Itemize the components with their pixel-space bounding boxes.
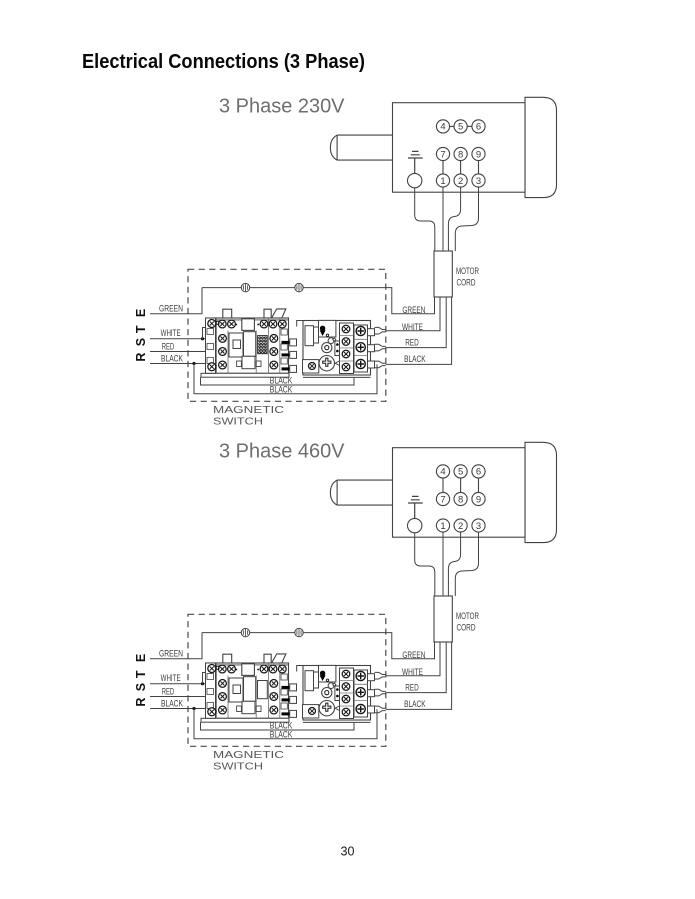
wire: T/WHITE supply to contactor [150,683,209,685]
svg-text:4: 4 [440,467,445,478]
svg-text:SWITCH: SWITCH [213,762,263,773]
magnetic contactor body [206,318,289,373]
relay left tower [305,671,314,691]
contactor top screw 4 [269,320,277,328]
wire BLACK: motor cord to overload relay [386,297,452,364]
relay output terminal column [354,670,368,717]
relay X screw 1 [342,325,350,333]
motor M (230V) : rear end cap [525,97,557,197]
svg-text:5: 5 [458,467,463,478]
contactor top tab 3 (slanted) [272,654,286,663]
motor terminal 9 [472,492,485,505]
motor terminal 5 [454,120,467,133]
magnetic switch enclosure (dashed) [188,269,386,401]
relay base plate [303,376,371,378]
relay output tab 1 [368,674,375,681]
overload relay body [303,321,371,376]
relay indicator ring [328,338,334,344]
relay output tab 2 [368,345,375,352]
junction on black wire [192,362,195,365]
svg-text:WHITE: WHITE [161,673,181,684]
contactor left pole screw 2 [219,693,227,701]
pilot lamp symbol 1 [241,628,249,636]
contactor line-side terminal strip [206,318,216,373]
relay output screw 2 [356,688,365,697]
svg-text:2: 2 [458,521,463,532]
jumper link terminals 6-9 [478,478,480,492]
jumper link terminals 8-2 [460,161,462,174]
motor terminal 6 [472,120,485,133]
svg-text:6: 6 [476,122,481,133]
relay X screw 3 [342,350,350,358]
relay bottom-left terminal box [303,360,319,373]
svg-text:3: 3 [476,521,481,532]
svg-text:7: 7 [440,494,445,505]
crimp connector 1 [375,672,386,679]
contactor inner dividers [217,663,280,718]
contactor right pole screw 2 [270,693,278,701]
svg-text:GREEN: GREEN [159,648,183,659]
crimp connector 3 [375,706,386,713]
relay contact block small [335,686,340,701]
contactor top screw 5 [278,320,286,328]
wire WHITE: motor cord to overload relay [386,642,440,676]
jumper link terminals 5-8 [460,478,462,492]
stub wire white to upper contact [203,673,209,684]
svg-text:CORD: CORD [457,278,476,289]
junction on black wire [192,707,195,710]
wire: terminal 1 to motor cord [442,187,444,251]
crimp connector 2 [375,689,386,696]
crimp connector 2 [375,344,386,351]
wire RED: motor cord to overload relay [386,297,446,348]
strip screw bottom [208,708,216,716]
contactor top tab 3 (slanted) [272,309,286,318]
svg-text:1: 1 [440,521,445,532]
relay output screw 1 [356,671,365,680]
wire: ground terminal to motor cord [415,188,435,251]
contactor base plate [201,718,289,722]
svg-text:BLACK: BLACK [270,384,293,395]
pilot lamp symbol 2 [295,628,303,636]
svg-text:Electrical Connections (3 Phas: Electrical Connections (3 Phase) [82,50,365,73]
svg-text:MAGNETIC: MAGNETIC [213,405,284,416]
svg-text:GREEN: GREEN [402,305,425,316]
magnetic switch enclosure (dashed) [188,614,386,746]
wire: ground terminal to motor cord [415,533,435,596]
contactor armature column [244,677,256,702]
relay output tab 3 [368,361,375,368]
wire BLACK: motor cord to overload relay [386,642,452,709]
wire GREEN: motor cord to switch box top rail [386,288,435,314]
contactor top rail [206,319,289,321]
contactor arc chamber grid [258,336,268,354]
svg-text:E: E [134,309,148,317]
contactor arc chamber grid [258,681,268,699]
motor terminal 1 [436,174,449,187]
relay X screw 1 [342,670,350,678]
pilot lamp symbol 1 [241,283,249,291]
relay X screw 4 [342,708,350,716]
wire WHITE: motor cord to overload relay [386,297,440,331]
svg-text:6: 6 [476,467,481,478]
svg-text:RED: RED [162,687,175,698]
relay base plate [303,721,371,723]
svg-text:7: 7 [440,149,445,160]
dial pointer [335,361,340,366]
jumper bar contactor-relay 1 [282,686,290,689]
wire: terminal 3 to motor cord [455,532,478,596]
contactor load-side strip rects [281,329,287,335]
relay top-left step outline [297,666,303,672]
motor terminal 2 [454,174,467,187]
junction on white wire [201,682,204,685]
wire BLACK: contactor to relay bottom loop [201,377,355,385]
contactor top screw 4 [269,665,277,673]
wire: terminal 1 to motor cord [442,532,444,596]
wire: E/GREEN supply into switch, up to pilot rail [150,288,202,314]
svg-text:BLACK: BLACK [404,699,426,710]
relay output screw 1 [356,326,365,335]
relay X screw 4 [342,363,350,371]
relay top box with trip flag [319,665,336,682]
svg-text:S: S [134,338,148,346]
contactor top rail [206,664,289,666]
svg-text:30: 30 [341,845,355,859]
relay output terminal column [354,325,368,372]
motor terminal 4 [436,465,449,478]
wire: terminal 2 to motor cord [448,532,460,596]
svg-text:SWITCH: SWITCH [213,417,263,428]
relay top-left step outline [297,321,303,327]
tiny auxiliary ring [216,321,219,324]
contactor right pole screw 1 [270,680,278,688]
wire: terminal 3 to motor cord [455,187,478,251]
pilot rail wire across top of switch [202,632,386,634]
motor terminal 1 [436,519,449,532]
wire: R/BLACK supply to contactor [150,708,209,710]
jumper bar contactor-relay 1 [282,341,290,344]
wire BLACK: supply loop around bottom [194,709,377,739]
svg-text:S: S [134,683,148,691]
svg-text:3 Phase 230V: 3 Phase 230V [219,95,345,118]
jumper link terminals 9-3 [478,161,480,174]
jumper link terminals 4-5 [450,125,454,127]
strip screw top [208,665,216,673]
junction on white wire [201,337,204,340]
motor terminal 2 [454,519,467,532]
motor M (230V) : body [393,103,526,193]
jumper bar contactor-relay 2 [282,698,290,701]
svg-text:BLACK: BLACK [161,698,183,709]
crimp connector 1 [375,327,386,334]
contactor right pole screw 1 [270,335,278,343]
contactor crossbar block [229,678,243,702]
svg-text:3: 3 [476,176,481,187]
wire: S/RED supply to contactor [150,696,209,698]
motor M (460V) : rear end cap [525,442,557,542]
relay output tab 3 [368,706,375,713]
relay load-side screw column [340,323,354,374]
svg-text:5: 5 [458,122,463,133]
strip screw bottom [208,363,216,371]
svg-text:WHITE: WHITE [161,328,181,339]
jumper bar contactor-relay 2 [282,353,290,356]
svg-text:9: 9 [476,494,481,505]
relay reset button [322,343,332,353]
svg-text:R: R [134,698,148,707]
svg-text:BLACK: BLACK [270,729,293,740]
svg-text:RED: RED [162,342,175,353]
svg-text:GREEN: GREEN [402,650,425,661]
jumper link terminals 7-1 [442,161,444,174]
motor ground terminal (unnumbered) [408,518,422,532]
contactor left pole screw 3 [219,706,227,714]
svg-text:CORD: CORD [457,623,476,634]
svg-text:MOTOR: MOTOR [456,266,479,277]
relay load-side screw column [340,668,354,719]
svg-text:GREEN: GREEN [159,303,183,314]
motor terminal 7 [436,147,449,160]
contactor right pole screw 3 [270,706,278,714]
stub wire white to upper contact [203,328,209,339]
pilot rail wire across top of switch [202,287,386,289]
relay X screw 3 [342,695,350,703]
contactor top screw 1 [218,665,226,673]
svg-text:BLACK: BLACK [404,354,426,365]
svg-text:MOTOR: MOTOR [456,611,479,622]
motor terminal 6 [472,465,485,478]
svg-text:E: E [134,654,148,662]
svg-text:BLACK: BLACK [161,353,183,364]
wire BLACK: supply loop around bottom [194,364,377,394]
jumper link terminals 4-7 [442,478,444,492]
svg-text:4: 4 [440,122,445,133]
motor terminal 9 [472,147,485,160]
svg-text:2: 2 [458,176,463,187]
motor terminal 3 [472,174,485,187]
relay output tab 1 [368,329,375,336]
svg-text:RED: RED [405,338,419,349]
svg-text:WHITE: WHITE [402,667,423,678]
motor terminal 7 [436,492,449,505]
overload relay body [303,666,371,721]
wire: S/RED supply to contactor [150,351,209,353]
contactor coil box [242,319,255,331]
relay output screw 2 [356,343,365,352]
contactor line-side terminal strip [206,663,216,718]
motor cord sheath [434,251,452,297]
contactor left pole screw 3 [219,361,227,369]
contactor top tab 2 [264,654,271,663]
relay output tab 2 [368,690,375,697]
svg-text:3 Phase 460V: 3 Phase 460V [219,440,345,463]
relay output screw 3 [356,704,365,713]
ground symbol (motor frame earth) [408,496,423,518]
contactor top tab 2 [264,309,271,318]
wire: R/BLACK supply to contactor [150,363,209,365]
contactor top tab 1 [223,309,232,318]
svg-text:8: 8 [458,149,463,160]
relay X screw 2 [342,338,350,346]
crimp connector 3 [375,361,386,368]
svg-text:T: T [134,325,148,333]
wire GREEN: motor cord to switch box top rail [386,633,435,659]
contactor crossbar block [229,333,243,357]
wire: terminal 2 to motor cord [448,187,460,251]
motor terminal 8 [454,492,467,505]
contactor coil box [242,664,255,676]
wire RED: motor cord to overload relay [386,642,446,693]
contactor left pole screw 1 [219,680,227,688]
relay ampere adjustment dial [319,701,334,716]
strip screw top [208,320,216,328]
contactor left pole screw 1 [219,335,227,343]
motor M (460V) : shaft [330,480,392,505]
motor terminal 5 [454,465,467,478]
svg-text:9: 9 [476,149,481,160]
jumper bar contactor-relay 3 [282,367,290,370]
wire BLACK: contactor to relay bottom loop [201,722,355,730]
relay ampere adjustment dial [319,356,334,371]
wire: E/GREEN supply into switch, up to pilot rail [150,633,202,659]
jumper bar contactor-relay 3 [282,712,290,715]
contactor top tab 1 [223,654,232,663]
relay reset button [322,688,332,698]
contactor top screw 2 [228,665,236,673]
relay X screw 2 [342,683,350,691]
motor cord sheath [434,596,452,642]
contactor left pole screw 2 [219,348,227,356]
relay contact block small [335,341,340,356]
pilot lamp symbol 2 [295,283,303,291]
contactor inner dividers [217,318,280,373]
magnetic contactor body [206,663,289,718]
motor terminal 8 [454,147,467,160]
contactor right pole screw 3 [270,361,278,369]
contactor right pole screw 2 [270,348,278,356]
svg-text:WHITE: WHITE [402,322,423,333]
motor terminal 4 [436,120,449,133]
motor M (460V) : body [393,448,526,538]
relay top box with trip flag [319,320,336,337]
svg-text:R: R [134,353,148,362]
contactor top screw 1 [218,320,226,328]
contactor top screw 5 [278,665,286,673]
contactor top screw 3 [260,320,268,328]
contactor armature column [244,332,256,357]
contactor base plate [201,373,289,377]
motor terminal 3 [472,519,485,532]
wire: T/WHITE supply to contactor [150,338,209,340]
svg-text:RED: RED [405,683,419,694]
motor ground terminal (unnumbered) [408,173,422,187]
jumper link terminals 5-6 [467,125,472,127]
svg-text:MAGNETIC: MAGNETIC [213,750,284,761]
relay bottom-left terminal box [303,705,319,718]
contactor top screw 2 [228,320,236,328]
svg-text:1: 1 [440,176,445,187]
contactor top screw 3 [260,665,268,673]
ground symbol (motor frame earth) [408,151,423,173]
tiny auxiliary ring [216,666,219,669]
relay left tower [305,326,314,346]
motor M (230V) : shaft [330,135,392,160]
dial pointer [335,706,340,711]
svg-text:T: T [134,670,148,678]
relay output screw 3 [356,359,365,368]
svg-text:8: 8 [458,494,463,505]
contactor load-side strip rects [281,674,287,680]
relay indicator ring [328,683,334,689]
